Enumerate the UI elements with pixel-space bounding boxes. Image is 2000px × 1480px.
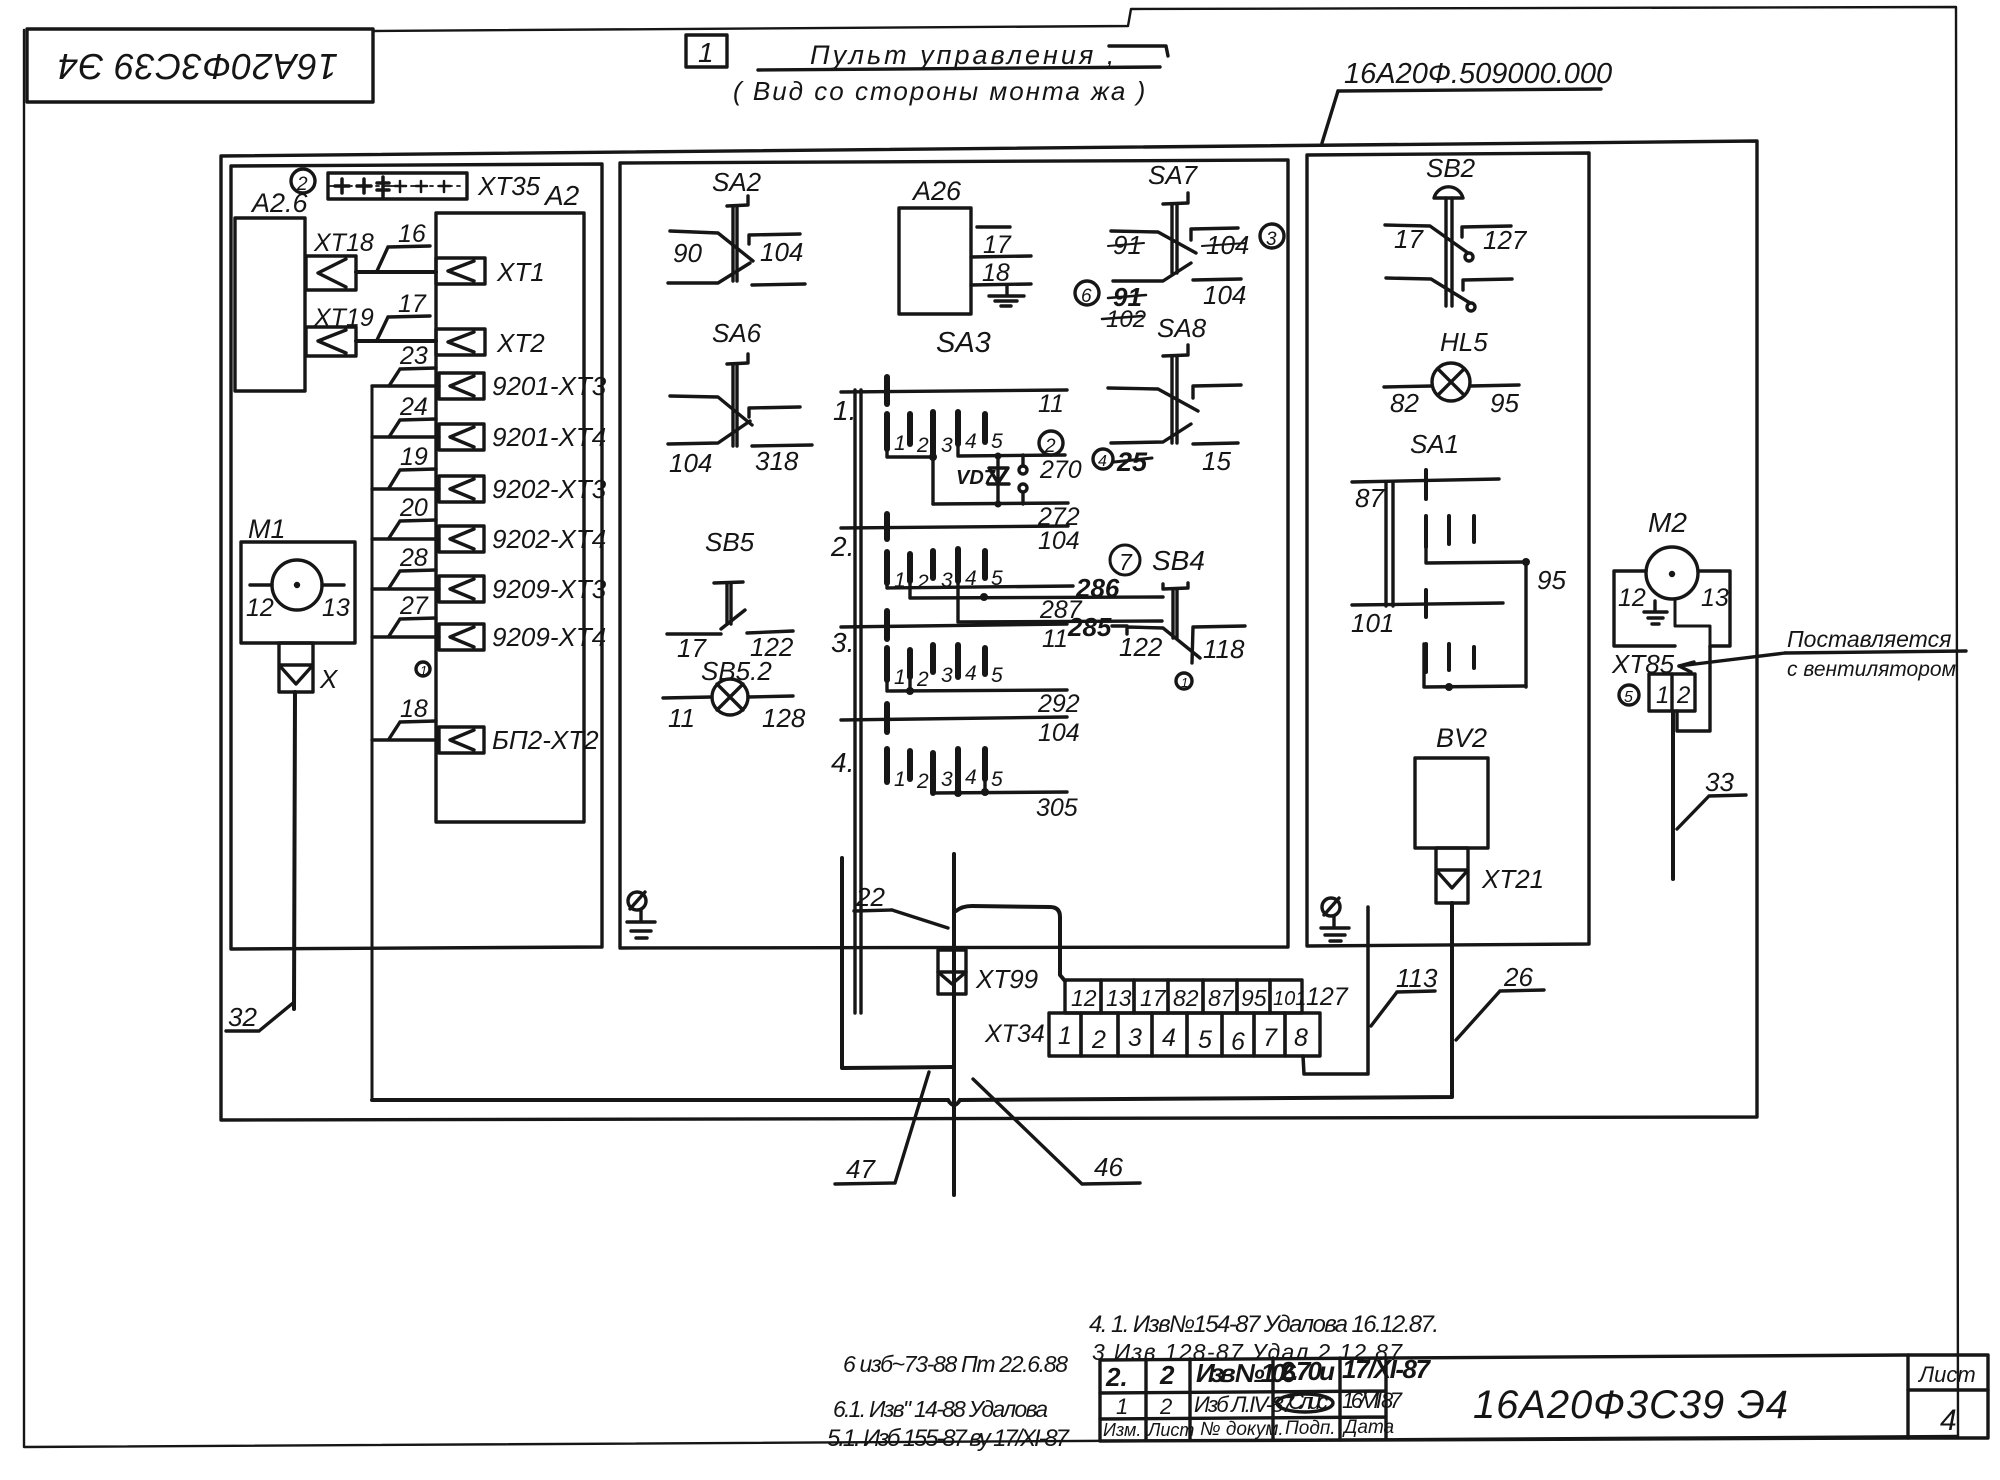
circled 7 bbox=[1110, 545, 1140, 575]
svg-text:7: 7 bbox=[1263, 1024, 1278, 1052]
wire 113 label + leader bbox=[1371, 963, 1438, 1026]
svg-text:17: 17 bbox=[398, 290, 427, 318]
XT2 connector bbox=[436, 329, 485, 355]
SA3 s2 lower line to SB4 bbox=[958, 597, 1162, 622]
wire from X down bbox=[294, 692, 295, 1009]
circled 4 bbox=[1093, 449, 1113, 470]
svg-text:127: 127 bbox=[1483, 225, 1528, 255]
svg-text:2: 2 bbox=[1044, 436, 1056, 457]
svg-text:82: 82 bbox=[1173, 985, 1199, 1011]
svg-text:1: 1 bbox=[894, 666, 906, 689]
svg-text:X: X bbox=[319, 664, 339, 694]
right inner section box bbox=[1307, 153, 1589, 946]
s1 NO contact circles bbox=[1019, 455, 1027, 504]
svg-text:95: 95 bbox=[1241, 985, 1267, 1011]
svg-text:33: 33 bbox=[1705, 767, 1734, 797]
position marker 1 digit bbox=[698, 37, 714, 68]
svg-text:1: 1 bbox=[894, 432, 906, 455]
stamp box (rotated doc number) bbox=[27, 29, 373, 102]
XT19 connector bbox=[306, 327, 356, 356]
9201-XT4 connector bbox=[439, 424, 484, 450]
9202-XT3 connector bbox=[439, 476, 484, 502]
svg-text:№ докум.: № докум. bbox=[1200, 1419, 1284, 1440]
XT85 boot outline bbox=[1677, 646, 1710, 731]
SB4 labels 122 118 bbox=[1119, 632, 1245, 664]
svg-text:SA6: SA6 bbox=[712, 318, 762, 348]
svg-text:БП2-XT2: БП2-XT2 bbox=[492, 725, 599, 755]
svg-text:12: 12 bbox=[1618, 584, 1646, 612]
svg-text:4.: 4. bbox=[831, 747, 854, 778]
pushbutton SB2 (mushroom head) bbox=[1385, 187, 1512, 311]
svg-text:4: 4 bbox=[965, 766, 977, 789]
svg-text:3: 3 bbox=[941, 664, 953, 687]
handwritten notes left of table bbox=[827, 1351, 1071, 1452]
SB4 label bbox=[1152, 545, 1205, 576]
SA3 s1 bottom line 272 bbox=[933, 503, 1080, 531]
SA3 stem (double line) bbox=[855, 390, 861, 1013]
stamp text 16А20Ф3С39 Э4 (rotated 180) bbox=[58, 46, 338, 87]
svg-text:9202-XT4: 9202-XT4 bbox=[492, 524, 606, 554]
svg-text:Изм.: Изм. bbox=[1103, 1420, 1141, 1440]
motor M1 box bbox=[241, 542, 355, 643]
svg-text:2.: 2. bbox=[830, 531, 854, 562]
title block headers bbox=[1103, 1417, 1394, 1440]
svg-text:5: 5 bbox=[1198, 1026, 1212, 1054]
svg-text:16А20Ф.509000.000: 16А20Ф.509000.000 bbox=[1344, 58, 1612, 90]
circled 2 (s1) bbox=[1039, 431, 1063, 457]
title underline bbox=[758, 46, 1168, 70]
circled 2 (near A2.6) bbox=[291, 169, 315, 195]
wire bundle vertical bbox=[371, 386, 374, 1099]
svg-text:113: 113 bbox=[1396, 963, 1438, 993]
note underline + arrow leader to XT85 bbox=[1679, 651, 1966, 672]
svg-text:5.1. Изб 155-87 ву 17/XI-87: 5.1. Изб 155-87 ву 17/XI-87 bbox=[827, 1425, 1071, 1452]
svg-text:4: 4 bbox=[965, 430, 977, 453]
XT34 lower row labels bbox=[1058, 1022, 1308, 1056]
A26 pin 17 bbox=[977, 227, 1012, 259]
svg-text:6: 6 bbox=[1231, 1028, 1245, 1056]
svg-text:2: 2 bbox=[1159, 1394, 1172, 1419]
svg-text:2: 2 bbox=[916, 434, 929, 457]
svg-text:22: 22 bbox=[855, 882, 885, 912]
wire 19 stub bbox=[372, 443, 439, 489]
doc number 16А20Ф.509000.000 bbox=[1344, 58, 1612, 90]
svg-text:HL5: HL5 bbox=[1440, 327, 1488, 357]
switch SA7 bbox=[1111, 193, 1241, 281]
diode VD7 bbox=[956, 456, 1009, 508]
svg-text:3: 3 bbox=[1266, 229, 1277, 250]
svg-text:с вентилятором: с вентилятором bbox=[1787, 658, 1956, 681]
svg-text:Лист: Лист bbox=[1917, 1362, 1976, 1387]
svg-text:104: 104 bbox=[1038, 527, 1080, 555]
A26 pin 3 line bbox=[971, 284, 1031, 285]
A2 box bbox=[436, 213, 584, 822]
SA8 labels 25 struck, 15 bbox=[1116, 446, 1231, 477]
svg-text:6: 6 bbox=[1081, 286, 1092, 307]
SA7 labels row2: 91 102 struck, 104 bbox=[1106, 280, 1246, 333]
sheet cell bbox=[1917, 1362, 1976, 1437]
svg-text:XT99: XT99 bbox=[975, 964, 1038, 994]
wire 16 (XT18-XT1) bbox=[356, 270, 436, 274]
XT18 label bbox=[313, 229, 374, 257]
middle inner section box bbox=[620, 160, 1288, 948]
svg-text:1: 1 bbox=[894, 768, 906, 791]
circled 5 bbox=[1619, 685, 1639, 706]
svg-text:Изб Л.IV-87: Изб Л.IV-87 bbox=[1194, 1392, 1295, 1417]
svg-text:XT21: XT21 bbox=[1481, 864, 1544, 894]
svg-text:VD7: VD7 bbox=[956, 467, 996, 489]
SA2 contact labels 90 104 bbox=[673, 237, 803, 268]
svg-text:SA3: SA3 bbox=[936, 327, 991, 359]
supplied-with-fan note bbox=[1787, 626, 1956, 681]
title block doc designation bbox=[1473, 1383, 1788, 1427]
svg-text:122: 122 bbox=[1119, 632, 1163, 662]
XT35 terminal strip bbox=[328, 173, 467, 199]
svg-text:3: 3 bbox=[941, 768, 953, 791]
svg-text:1: 1 bbox=[420, 663, 427, 678]
9202-XT4 connector bbox=[439, 526, 484, 552]
XT85 label bbox=[1611, 649, 1675, 679]
svg-text:13: 13 bbox=[1106, 985, 1132, 1011]
svg-text:3: 3 bbox=[941, 434, 953, 457]
motor M2 circle bbox=[1646, 547, 1698, 599]
XT34 upper row boxes bbox=[1065, 980, 1302, 1013]
motor M2 box bbox=[1614, 571, 1730, 646]
svg-text:82: 82 bbox=[1390, 388, 1419, 418]
SA6 label bbox=[712, 318, 762, 348]
SA3 section 3 top line 11 285 bbox=[841, 611, 1112, 653]
svg-text:4: 4 bbox=[1098, 453, 1107, 470]
XT2 label bbox=[496, 328, 545, 358]
svg-text:SA8: SA8 bbox=[1157, 313, 1207, 343]
handwritten row1 signature oval bbox=[1277, 1394, 1333, 1412]
svg-text:17: 17 bbox=[1394, 224, 1424, 254]
circled 3 bbox=[1260, 224, 1284, 250]
9202-XT3 label bbox=[492, 474, 607, 504]
wire 16 label + leader bbox=[377, 220, 430, 271]
wire 26 label + leader bbox=[1456, 962, 1544, 1040]
svg-text:101: 101 bbox=[1273, 988, 1306, 1010]
svg-text:2: 2 bbox=[1091, 1026, 1106, 1054]
handwritten note line 3 bbox=[1092, 1339, 1403, 1365]
svg-text:SA7: SA7 bbox=[1148, 160, 1199, 190]
wire 33 label + leader bbox=[1677, 767, 1746, 829]
BV2 box bbox=[1415, 758, 1488, 848]
XT34 label bbox=[984, 1020, 1045, 1048]
svg-text:6.1. Изв" 14-88 Удалова: 6.1. Изв" 14-88 Удалова bbox=[833, 1396, 1048, 1422]
XT35 label bbox=[477, 171, 541, 201]
switch SA6 bbox=[668, 354, 812, 446]
SA3 section 2 marker bbox=[830, 531, 854, 562]
XT18 connector bbox=[306, 256, 356, 290]
svg-text:12: 12 bbox=[246, 594, 274, 622]
SA3 s1 wiring + 270 bbox=[887, 444, 1082, 504]
svg-text:5: 5 bbox=[991, 430, 1003, 453]
SB5 label bbox=[705, 527, 755, 557]
svg-text:XT2: XT2 bbox=[496, 328, 545, 358]
XT99 label bbox=[975, 964, 1038, 994]
HL5 label bbox=[1440, 327, 1488, 357]
M2 internal ground bbox=[1644, 601, 1667, 624]
svg-text:SA2: SA2 bbox=[712, 167, 762, 197]
handwritten note line 4 bbox=[1089, 1311, 1439, 1338]
svg-text:9202-XT3: 9202-XT3 bbox=[492, 474, 607, 504]
svg-text:A2: A2 bbox=[543, 180, 580, 211]
M2 pin labels 12 13 bbox=[1618, 584, 1729, 612]
title block table bbox=[1100, 1355, 1988, 1441]
svg-text:2.: 2. bbox=[1105, 1362, 1128, 1392]
svg-text:101: 101 bbox=[1351, 608, 1394, 638]
9209-XT4 connector bbox=[439, 624, 484, 650]
wire 46 label + leader bbox=[973, 1079, 1140, 1184]
A26 label bbox=[911, 176, 962, 206]
svg-text:1: 1 bbox=[1181, 675, 1188, 690]
svg-text:305: 305 bbox=[1036, 794, 1078, 822]
wire 47 label + leader bbox=[835, 1072, 929, 1184]
svg-text:XT1: XT1 bbox=[496, 257, 545, 287]
XT34 lower row boxes bbox=[1049, 1013, 1320, 1056]
wire 24 stub bbox=[372, 393, 439, 437]
M1 leads bbox=[250, 583, 344, 586]
switch SA1 bbox=[1352, 470, 1530, 691]
SA3 s1 contact bars 1-5 bbox=[887, 412, 985, 457]
svg-text:7: 7 bbox=[1119, 549, 1133, 575]
svg-text:1: 1 bbox=[698, 37, 714, 68]
svg-text:46: 46 bbox=[1094, 1152, 1123, 1182]
svg-text:26: 26 bbox=[1503, 962, 1533, 992]
svg-text:5: 5 bbox=[991, 664, 1003, 687]
svg-text:9209-XT3: 9209-XT3 bbox=[492, 574, 607, 604]
M1 pin labels 12 13 bbox=[246, 594, 350, 622]
svg-text:4: 4 bbox=[1940, 1404, 1957, 1437]
circled 6 bbox=[1075, 281, 1099, 307]
SA1 label bbox=[1410, 429, 1459, 459]
svg-text:318: 318 bbox=[755, 446, 799, 476]
9201-XT4 label bbox=[492, 422, 606, 452]
SA3 section 1 top line 11 bbox=[841, 377, 1067, 418]
M1 label bbox=[248, 514, 286, 544]
svg-text:104: 104 bbox=[669, 448, 712, 478]
svg-text:2: 2 bbox=[296, 174, 308, 195]
XT21 connector bbox=[1436, 848, 1468, 903]
A2.6 box bbox=[235, 218, 305, 391]
svg-text:24: 24 bbox=[399, 393, 428, 421]
БП2-XT2 label bbox=[492, 725, 599, 755]
A26 pin 18 bbox=[971, 256, 1031, 287]
SA3 s3 out line 292 bbox=[887, 677, 1080, 718]
svg-text:Пульт управления ,: Пульт управления , bbox=[810, 40, 1117, 70]
wire 22 label + leader bbox=[854, 882, 948, 928]
svg-text:8: 8 bbox=[1294, 1024, 1308, 1052]
SA3 s2 bar numerals bbox=[894, 567, 1003, 594]
svg-text:5: 5 bbox=[991, 768, 1003, 791]
svg-text:87: 87 bbox=[1208, 985, 1235, 1011]
SB5.2 contact labels 11 128 bbox=[668, 703, 806, 733]
pushbutton SB5 bbox=[667, 582, 793, 634]
svg-text:2: 2 bbox=[916, 770, 929, 793]
svg-text:4: 4 bbox=[1162, 1024, 1176, 1052]
SA3 section 3 marker bbox=[831, 627, 854, 658]
svg-text:2: 2 bbox=[1676, 682, 1690, 709]
wire from XT34-8 to right riser bbox=[1303, 907, 1368, 1074]
jog wire from drop to XT34-12 bbox=[956, 906, 1065, 981]
wire 17 label + leader bbox=[377, 290, 430, 340]
svg-text:1: 1 bbox=[1058, 1022, 1072, 1050]
A26 box bbox=[899, 208, 971, 314]
svg-text:90: 90 bbox=[673, 238, 702, 268]
XT1 label bbox=[496, 257, 545, 287]
9209-XT3 connector bbox=[439, 576, 484, 602]
svg-text:104: 104 bbox=[760, 237, 803, 267]
svg-text:18: 18 bbox=[400, 695, 428, 723]
svg-text:28: 28 bbox=[399, 544, 428, 572]
svg-text:16А20Ф3С39 Э4: 16А20Ф3С39 Э4 bbox=[1473, 1383, 1788, 1427]
main drop wire to XT99 bbox=[952, 854, 956, 1195]
circled 1 (small, left) bbox=[416, 662, 430, 678]
svg-text:17: 17 bbox=[1140, 985, 1167, 1011]
svg-text:BV2: BV2 bbox=[1436, 723, 1487, 753]
svg-text:27: 27 bbox=[399, 592, 429, 620]
svg-text:95: 95 bbox=[1490, 388, 1519, 418]
svg-text:Дата: Дата bbox=[1342, 1417, 1394, 1438]
svg-text:16/VII 87: 16/VII 87 bbox=[1342, 1388, 1403, 1413]
SA3 section 2 top line 104 bbox=[841, 514, 1080, 555]
XT34 upper row labels bbox=[1071, 985, 1306, 1011]
switch SA8 bbox=[1108, 345, 1241, 444]
svg-text:127: 127 bbox=[1306, 983, 1349, 1011]
svg-text:A26: A26 bbox=[911, 176, 962, 206]
svg-text:23: 23 bbox=[399, 342, 428, 370]
svg-text:XT18: XT18 bbox=[313, 229, 374, 257]
XT21 label bbox=[1481, 864, 1544, 894]
SA3 s2 out line 287 bbox=[910, 581, 1163, 624]
A26 ground bbox=[989, 285, 1024, 306]
svg-text:11: 11 bbox=[1042, 625, 1068, 653]
svg-text:3 Изв 128-87 Удал 2.1: 3 Изв 128-87 Удал 2.12.87 bbox=[1092, 1339, 1403, 1365]
wire 32 label + leader bbox=[226, 1002, 293, 1032]
SA6 contact labels 104 318 bbox=[669, 446, 799, 478]
svg-text:SB4: SB4 bbox=[1152, 545, 1205, 576]
title: Пульт управления bbox=[733, 40, 1147, 106]
9202-XT4 label bbox=[492, 524, 606, 554]
left inner section box bbox=[231, 164, 602, 949]
XT19 label bbox=[313, 304, 374, 332]
svg-text:19: 19 bbox=[400, 443, 428, 471]
wire 17 (XT19-XT2) bbox=[356, 339, 436, 343]
svg-text:M2: M2 bbox=[1648, 507, 1687, 538]
svg-text:1.: 1. bbox=[833, 395, 856, 426]
SA7 label bbox=[1148, 160, 1199, 190]
svg-text:SB2: SB2 bbox=[1426, 153, 1476, 183]
label 127 (right of strip) bbox=[1306, 983, 1349, 1011]
circled 1 (below SB4) bbox=[1176, 673, 1192, 690]
svg-text:3.: 3. bbox=[831, 627, 854, 658]
SA3 s4 bar numerals bbox=[894, 766, 1003, 793]
pushbutton SB4 bbox=[1112, 583, 1245, 663]
svg-text:11: 11 bbox=[668, 703, 695, 733]
svg-text:32: 32 bbox=[228, 1002, 257, 1032]
motor M1 circle bbox=[272, 560, 322, 610]
svg-text:9201-XT4: 9201-XT4 bbox=[492, 422, 606, 452]
svg-text:4. 1. Изв№154-87 Удалова 16: 4. 1. Изв№154-87 Удалова 16.12.87. bbox=[1089, 1311, 1439, 1338]
M2 wire to XT85 bbox=[1675, 599, 1710, 646]
ground symbol (middle box) bbox=[627, 892, 655, 938]
svg-text:( Вид со стороны монта жа ): ( Вид со стороны монта жа ) bbox=[733, 76, 1147, 106]
XT99 connector bbox=[938, 950, 966, 994]
svg-text:9201-XT3: 9201-XT3 bbox=[492, 371, 607, 401]
svg-text:270: 270 bbox=[1039, 456, 1082, 484]
svg-text:13: 13 bbox=[322, 594, 350, 622]
SA3 s1 bar numerals bbox=[894, 430, 1003, 457]
svg-text:SB5: SB5 bbox=[705, 527, 755, 557]
svg-text:5: 5 bbox=[1624, 689, 1633, 706]
SA3 s4 contact bars 1-5 bbox=[887, 749, 985, 793]
XT1 connector bbox=[436, 258, 485, 284]
svg-text:95: 95 bbox=[1537, 565, 1566, 595]
svg-text:15: 15 bbox=[1202, 446, 1231, 476]
circled 6 (left of SA7 row2) bbox=[1086, 291, 1090, 295]
svg-text:47: 47 bbox=[846, 1154, 876, 1184]
svg-text:Лист: Лист bbox=[1147, 1420, 1194, 1440]
svg-text:292: 292 bbox=[1037, 690, 1080, 718]
svg-text:12: 12 bbox=[1071, 985, 1097, 1011]
SA3 s4 out line 305 bbox=[933, 779, 1078, 822]
handwritten revision row 2 bbox=[1105, 1354, 1432, 1392]
SB5.2 label bbox=[701, 656, 772, 686]
SA3 s3 bar numerals bbox=[894, 662, 1003, 691]
SA8 label bbox=[1157, 313, 1207, 343]
XT21 drop wire + long bus left bbox=[372, 903, 1452, 1105]
SA7 labels 91 104 struck bbox=[1113, 230, 1249, 260]
SA3 section 4 top line 104 bbox=[841, 704, 1080, 747]
wire 33 from XT85 bbox=[1671, 711, 1675, 879]
svg-text:SA1: SA1 bbox=[1410, 429, 1459, 459]
wire 20 stub bbox=[372, 494, 439, 539]
svg-text:11: 11 bbox=[1038, 390, 1064, 418]
SA3 section 1 marker bbox=[833, 395, 856, 426]
SA3 label bbox=[936, 327, 991, 359]
wire 28 stub bbox=[372, 544, 439, 589]
SA3 s3 contact bars 1-5 bbox=[887, 645, 985, 680]
svg-text:20: 20 bbox=[399, 494, 428, 522]
svg-text:6 изб~73-88 Пт 22.6.88: 6 изб~73-88 Пт 22.6.88 bbox=[843, 1351, 1068, 1377]
svg-text:Поставляется: Поставляется bbox=[1787, 626, 1951, 652]
svg-text:M1: M1 bbox=[248, 514, 286, 544]
БП2-XT2 connector bbox=[439, 727, 484, 753]
BV2 label bbox=[1436, 723, 1487, 753]
SB2 label bbox=[1426, 153, 1476, 183]
svg-text:Подп.: Подп. bbox=[1285, 1418, 1336, 1439]
svg-text:1: 1 bbox=[1656, 682, 1669, 709]
A2.6 label bbox=[250, 188, 309, 218]
position marker 1 box bbox=[686, 35, 727, 67]
connector X label bbox=[319, 664, 339, 694]
handwritten revision row 1 bbox=[1116, 1388, 1403, 1419]
wire 27 stub bbox=[372, 592, 439, 637]
svg-text:87: 87 bbox=[1355, 483, 1385, 513]
svg-text:XT35: XT35 bbox=[477, 171, 541, 201]
SA1 labels 87 101 95 bbox=[1351, 483, 1566, 638]
SB5 contact labels 17 122 bbox=[677, 632, 794, 663]
lamp SB5.2 bbox=[663, 679, 793, 715]
SB2 labels 17 127 bbox=[1394, 224, 1528, 255]
svg-text:104: 104 bbox=[1038, 719, 1080, 747]
svg-text:2: 2 bbox=[916, 571, 929, 594]
svg-text:4: 4 bbox=[965, 662, 977, 685]
svg-text:13: 13 bbox=[1701, 584, 1729, 612]
svg-text:285: 285 bbox=[1067, 612, 1112, 642]
svg-text:16А20Ф3С39 Э4: 16А20Ф3С39 Э4 bbox=[58, 46, 338, 87]
